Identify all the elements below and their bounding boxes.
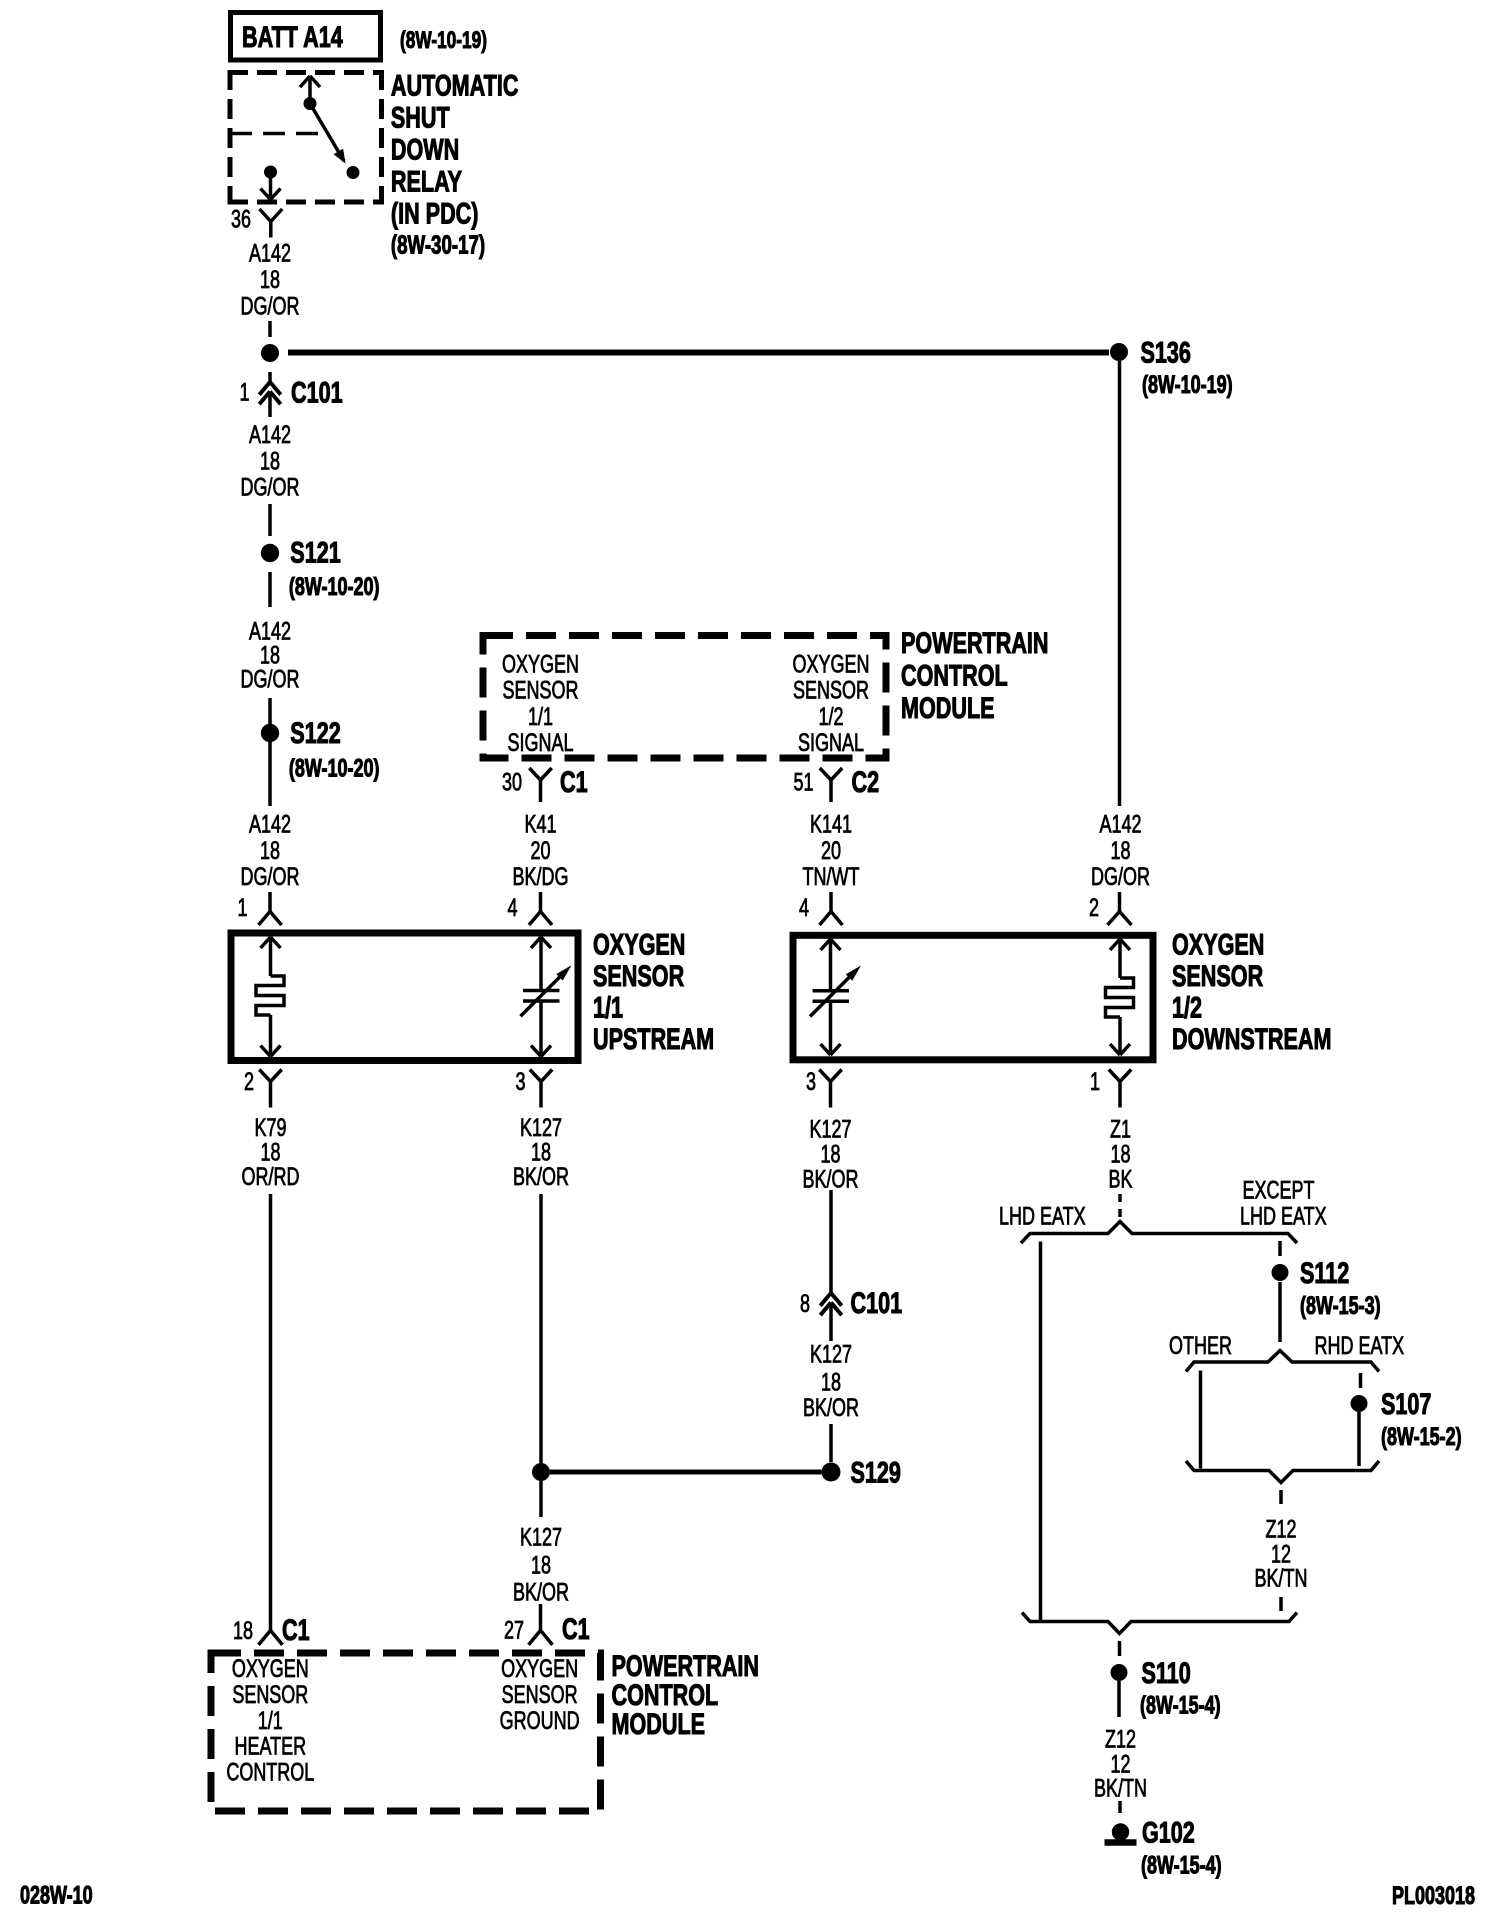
svg-text:(8W-15-3): (8W-15-3) xyxy=(1300,1291,1381,1320)
svg-text:SENSOR: SENSOR xyxy=(1172,958,1263,992)
svg-text:BATT A14: BATT A14 xyxy=(242,19,343,53)
svg-text:20: 20 xyxy=(530,836,550,865)
svg-text:SIGNAL: SIGNAL xyxy=(508,728,574,757)
svg-text:C1: C1 xyxy=(560,764,588,798)
svg-text:18: 18 xyxy=(1110,836,1130,865)
svg-text:HEATER: HEATER xyxy=(234,1732,306,1761)
svg-text:S121: S121 xyxy=(290,535,340,569)
svg-text:SENSOR: SENSOR xyxy=(503,676,579,705)
svg-text:OXYGEN: OXYGEN xyxy=(593,927,685,961)
svg-text:OXYGEN: OXYGEN xyxy=(793,650,870,679)
svg-text:1/1: 1/1 xyxy=(528,702,553,731)
svg-text:BK: BK xyxy=(1108,1165,1132,1194)
svg-text:S122: S122 xyxy=(290,715,340,749)
svg-text:DOWNSTREAM: DOWNSTREAM xyxy=(1172,1021,1332,1055)
svg-text:(8W-10-19): (8W-10-19) xyxy=(400,27,487,53)
svg-text:PL003018: PL003018 xyxy=(1392,1881,1475,1910)
svg-text:A142: A142 xyxy=(249,239,291,268)
svg-text:SENSOR: SENSOR xyxy=(593,958,684,992)
svg-text:C2: C2 xyxy=(852,764,880,798)
svg-text:18: 18 xyxy=(821,1368,841,1397)
svg-text:SENSOR: SENSOR xyxy=(232,1680,308,1709)
svg-text:BK/DG: BK/DG xyxy=(513,862,569,891)
svg-text:(8W-15-4): (8W-15-4) xyxy=(1141,1851,1222,1880)
svg-text:G102: G102 xyxy=(1142,1815,1195,1849)
svg-text:(8W-15-2): (8W-15-2) xyxy=(1381,1422,1462,1451)
svg-text:SENSOR: SENSOR xyxy=(793,676,869,705)
svg-text:2: 2 xyxy=(1089,893,1099,922)
svg-text:LHD EATX: LHD EATX xyxy=(999,1202,1086,1231)
svg-text:S136: S136 xyxy=(1141,335,1191,369)
svg-text:028W-10: 028W-10 xyxy=(20,1881,93,1910)
svg-text:A142: A142 xyxy=(249,810,291,839)
svg-text:DG/OR: DG/OR xyxy=(241,473,300,502)
svg-text:MODULE: MODULE xyxy=(901,690,995,724)
svg-text:OXYGEN: OXYGEN xyxy=(1172,927,1264,961)
svg-text:C1: C1 xyxy=(282,1612,310,1646)
svg-text:18: 18 xyxy=(531,1551,551,1580)
svg-text:18: 18 xyxy=(233,1616,253,1645)
svg-text:K141: K141 xyxy=(810,810,852,839)
svg-text:BK/TN: BK/TN xyxy=(1094,1774,1147,1803)
svg-text:OTHER: OTHER xyxy=(1169,1331,1232,1360)
svg-text:SHUT: SHUT xyxy=(391,100,450,134)
svg-text:DG/OR: DG/OR xyxy=(241,665,300,694)
svg-text:1/1: 1/1 xyxy=(593,990,623,1024)
svg-text:CONTROL: CONTROL xyxy=(226,1757,314,1786)
svg-text:K127: K127 xyxy=(810,1340,852,1369)
svg-text:OXYGEN: OXYGEN xyxy=(501,1654,578,1683)
svg-text:DG/OR: DG/OR xyxy=(1091,862,1150,891)
svg-text:BK/OR: BK/OR xyxy=(513,1162,569,1191)
svg-text:K127: K127 xyxy=(520,1523,562,1552)
svg-text:RELAY: RELAY xyxy=(391,164,462,198)
svg-text:27: 27 xyxy=(504,1616,524,1645)
svg-text:1/1: 1/1 xyxy=(258,1706,283,1735)
svg-text:BK/OR: BK/OR xyxy=(803,1393,859,1422)
svg-text:(8W-10-20): (8W-10-20) xyxy=(289,754,380,783)
svg-text:SENSOR: SENSOR xyxy=(502,1680,578,1709)
svg-text:51: 51 xyxy=(793,768,813,797)
svg-text:(IN PDC): (IN PDC) xyxy=(391,196,479,230)
svg-text:S107: S107 xyxy=(1381,1386,1431,1420)
svg-text:SIGNAL: SIGNAL xyxy=(798,728,864,757)
svg-text:18: 18 xyxy=(260,265,280,294)
svg-text:2: 2 xyxy=(244,1067,254,1096)
svg-text:LHD EATX: LHD EATX xyxy=(1240,1202,1327,1231)
svg-text:OXYGEN: OXYGEN xyxy=(232,1654,309,1683)
svg-text:18: 18 xyxy=(260,836,280,865)
svg-text:BK/TN: BK/TN xyxy=(1255,1564,1308,1593)
svg-text:36: 36 xyxy=(231,205,251,234)
svg-text:(8W-10-19): (8W-10-19) xyxy=(1142,370,1233,399)
svg-text:DOWN: DOWN xyxy=(391,132,459,166)
svg-text:MODULE: MODULE xyxy=(612,1707,706,1741)
svg-text:18: 18 xyxy=(260,446,280,475)
svg-text:1: 1 xyxy=(1090,1067,1100,1096)
svg-text:K41: K41 xyxy=(524,810,556,839)
svg-text:RHD EATX: RHD EATX xyxy=(1315,1331,1405,1360)
svg-text:(8W-15-4): (8W-15-4) xyxy=(1140,1691,1221,1720)
svg-text:GROUND: GROUND xyxy=(500,1706,580,1735)
svg-text:BK/OR: BK/OR xyxy=(513,1578,569,1607)
svg-text:1/2: 1/2 xyxy=(1172,990,1202,1024)
svg-text:S129: S129 xyxy=(851,1455,901,1489)
svg-text:S112: S112 xyxy=(1300,1255,1349,1289)
svg-text:20: 20 xyxy=(821,836,841,865)
svg-text:BK/OR: BK/OR xyxy=(803,1165,859,1194)
svg-text:A142: A142 xyxy=(249,420,291,449)
svg-text:POWERTRAIN: POWERTRAIN xyxy=(901,625,1049,659)
svg-text:UPSTREAM: UPSTREAM xyxy=(593,1021,714,1055)
svg-text:OR/RD: OR/RD xyxy=(242,1162,300,1191)
svg-text:1/2: 1/2 xyxy=(818,702,843,731)
svg-text:A142: A142 xyxy=(1099,810,1141,839)
svg-text:EXCEPT: EXCEPT xyxy=(1243,1175,1315,1204)
svg-text:3: 3 xyxy=(806,1067,816,1096)
svg-text:(8W-30-17): (8W-30-17) xyxy=(391,229,485,259)
svg-text:3: 3 xyxy=(515,1067,525,1096)
svg-text:1: 1 xyxy=(237,893,247,922)
svg-text:4: 4 xyxy=(799,893,809,922)
svg-text:1: 1 xyxy=(239,378,249,407)
svg-text:S110: S110 xyxy=(1142,1655,1191,1689)
svg-text:C1: C1 xyxy=(562,1611,590,1645)
svg-text:C101: C101 xyxy=(291,375,343,409)
svg-text:DG/OR: DG/OR xyxy=(241,292,300,321)
svg-text:AUTOMATIC: AUTOMATIC xyxy=(391,68,519,102)
svg-text:30: 30 xyxy=(502,768,522,797)
svg-text:OXYGEN: OXYGEN xyxy=(502,650,579,679)
svg-text:4: 4 xyxy=(507,893,517,922)
svg-text:DG/OR: DG/OR xyxy=(241,862,300,891)
svg-text:TN/WT: TN/WT xyxy=(803,862,860,891)
svg-text:CONTROL: CONTROL xyxy=(901,658,1008,692)
svg-text:8: 8 xyxy=(800,1289,810,1318)
svg-text:(8W-10-20): (8W-10-20) xyxy=(289,572,380,601)
svg-text:C101: C101 xyxy=(851,1285,903,1319)
